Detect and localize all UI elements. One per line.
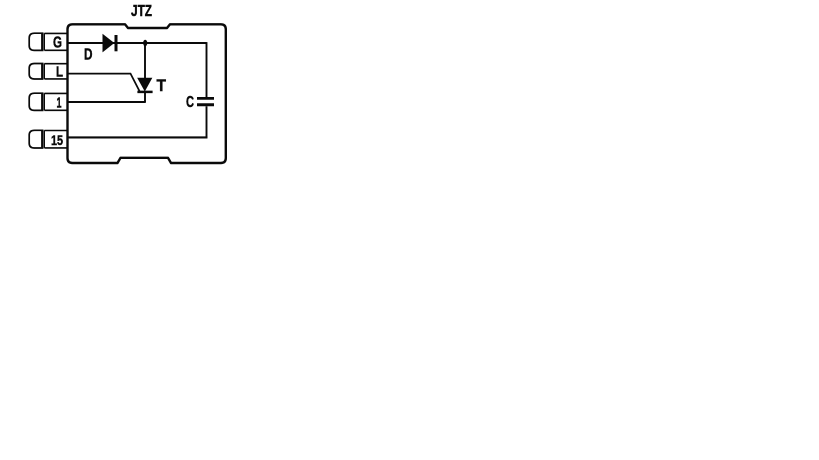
wire G to diode to node and inner top rail [68,42,207,44]
pin L terminal [29,63,67,80]
svg-text:1: 1 [57,94,62,111]
svg-text:C: C [186,94,194,111]
pin G terminal [29,33,67,51]
wire pin L to gate [68,74,140,92]
svg-text:15: 15 [51,132,63,148]
wire thyristor cathode down to pin1 rail [144,92,146,102]
pin 15 terminal [29,130,67,148]
wire pin 1 rail [68,101,146,103]
wire pin 15 bottom rail [68,136,208,138]
svg-text:G: G [53,35,62,52]
capacitor C [186,94,214,111]
svg-text:D: D [84,46,93,63]
module outline JTZ relay body [68,24,226,163]
thyristor T [137,77,166,95]
wire right rail top segment [206,42,208,97]
node junction dot [143,40,147,46]
diode D [84,35,116,64]
wire right rail bottom segment [206,106,208,138]
svg-text:JTZ: JTZ [131,3,152,20]
svg-text:T: T [157,77,167,95]
svg-text:L: L [56,63,63,80]
pin 1 terminal [29,93,67,111]
wire node down to thyristor anode [144,43,146,78]
